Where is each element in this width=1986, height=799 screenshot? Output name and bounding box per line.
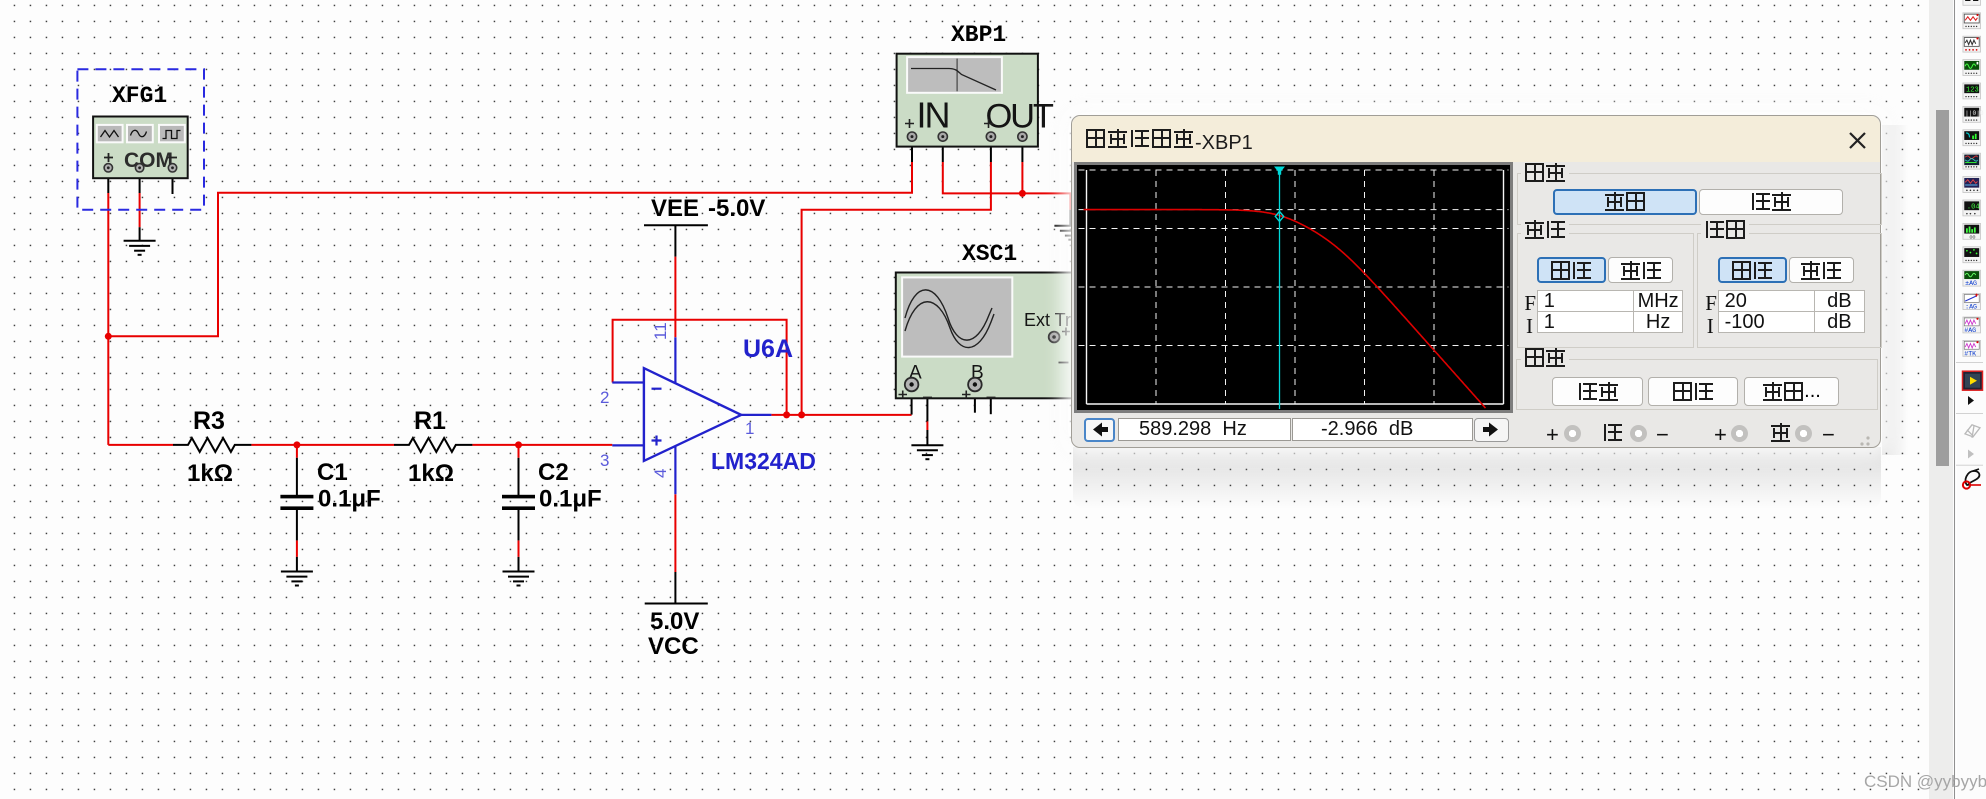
svg-text:oo: oo (1970, 234, 1976, 240)
svg-text::AG: :AG (1965, 304, 1977, 311)
svg-text:.04: .04 (1967, 203, 1980, 211)
svg-text:#AG: #AG (1964, 327, 1976, 334)
svg-text:123: 123 (1966, 86, 1979, 94)
svg-text:#TK: #TK (1964, 350, 1976, 357)
svg-text:||0|0: ||0|0 (1965, 110, 1984, 117)
svg-text:±AG: ±AG (1965, 280, 1977, 287)
